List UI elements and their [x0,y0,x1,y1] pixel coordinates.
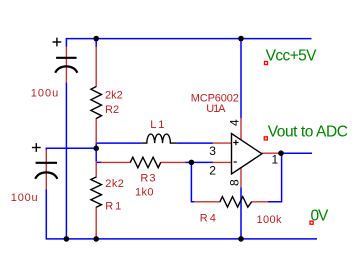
op-amp U1 minus input mark [234,161,237,163]
svg-text:4: 4 [228,119,242,126]
node dot top rail / R2 [93,36,99,42]
resistor R2 body [91,87,102,119]
capacitor C2 top plate [36,162,57,164]
node dot bottom rail / pin8 [238,236,244,242]
wire R2 top stub [95,39,97,48]
resistor R1 body [91,177,102,207]
resistor R3 pin left [101,161,131,163]
node dot bottom rail / R1 [93,236,99,242]
svg-text:R1: R1 [105,201,123,213]
op-amp U1 plus input mark [233,140,238,145]
wire output to Vout terminal [281,152,312,154]
node dot top rail / pin4 [238,36,244,42]
wire bottom rail 0V [46,238,317,240]
wire node A vertical [95,143,97,161]
wire node B feedback drop [191,162,194,201]
wire node A to L1 [96,142,142,144]
svg-text:2: 2 [209,163,216,177]
node dot A (R2/C2/input) [93,146,99,152]
wire C1 top stub [65,38,67,47]
op-amp U1 pin1 lead [262,152,281,154]
wire R3 to node B [185,161,192,163]
capacitor C1 curved plate [55,66,77,72]
resistor R2 pin bottom [95,118,97,144]
op-amp U1 pin3 lead [213,142,232,144]
capacitor C1 plus sign [53,38,62,47]
terminal square Vout [264,137,267,140]
svg-text:100u: 100u [11,192,39,204]
wire pin8 ground drop [240,187,242,239]
wire node B to pin2 [191,161,213,163]
resistor R3 body [130,157,160,168]
svg-text:Vout to ADC: Vout to ADC [268,123,348,140]
resistor R3 pin right [160,161,185,163]
node dot bottom rail / C1 [64,236,70,242]
resistor R4 pin left [194,201,220,203]
svg-text:R2: R2 [105,104,119,116]
svg-text:R4: R4 [200,213,218,225]
svg-text:3: 3 [209,144,216,158]
resistor R2 pin top [95,47,97,88]
svg-text:100u: 100u [31,87,59,99]
capacitor C1 pin [65,47,67,84]
terminal square 0V [310,221,313,224]
svg-text:Vcc+5V: Vcc+5V [266,48,318,65]
wire node A to R3 stub [96,161,101,163]
wire top rail Vcc [66,38,311,40]
svg-text:U1A: U1A [206,103,226,115]
wire C2 bottom run [45,189,47,240]
resistor R1 pin bottom [95,207,97,239]
terminal square Vcc [264,61,267,64]
capacitor C2 curved plate [35,172,57,178]
capacitor C2 plus sign [32,143,41,152]
svg-text:100k: 100k [257,214,283,226]
node dot output [278,150,284,156]
op-amp U1 triangle [232,134,262,174]
wire pin4 supply drop [240,39,242,119]
svg-text:1k0: 1k0 [135,187,154,199]
wire C1 bottom run [65,83,67,239]
resistor R4 pin right [251,201,268,203]
svg-text:1: 1 [272,152,279,166]
op-amp U1 pin8 lead [240,167,242,188]
svg-text:2k2: 2k2 [105,90,123,102]
svg-text:L1: L1 [150,119,166,131]
wire L1 to pin3 [176,142,213,144]
inductor L1 body [142,134,177,143]
svg-text:2k2: 2k2 [105,178,124,190]
svg-text:8: 8 [227,179,241,186]
node dot B (R3/pin2/R4) [189,160,195,166]
op-amp U1 pin2 lead [213,161,232,163]
capacitor C1 top plate [56,57,77,59]
wire R4 right to output riser [268,153,282,202]
wire C2 top stub [45,148,47,151]
op-amp U1 pin4 lead [240,118,242,140]
wire C2 top horizontal [46,147,96,149]
svg-text:R3: R3 [140,173,156,185]
resistor R1 pin top [95,161,97,178]
resistor R4 body [220,197,252,208]
capacitor C2 pin [45,150,47,190]
